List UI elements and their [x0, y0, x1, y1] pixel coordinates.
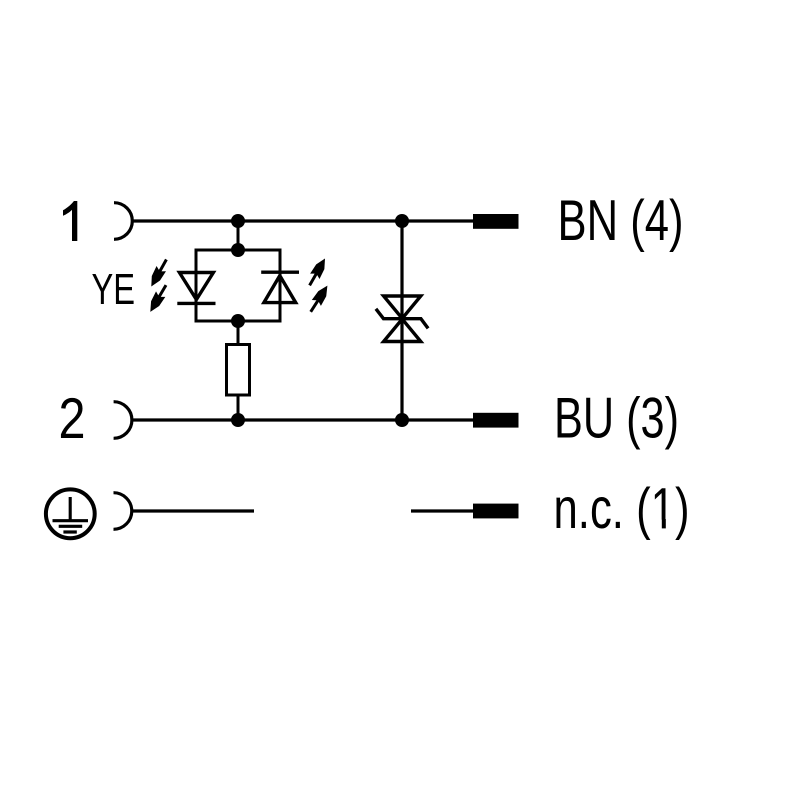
terminal lug n.c. [473, 504, 519, 519]
wire resistor to pin 2 [237, 395, 240, 420]
label n.c. (1) [554, 477, 690, 541]
wire LED bridge bottom to resistor [237, 321, 240, 345]
node junction pin1 / LED branch [231, 214, 245, 228]
svg-text:YE: YE [92, 265, 136, 314]
wire PE stub (unconnected) [132, 509, 254, 512]
wire pin 1 to terminal BN [132, 219, 473, 222]
resistor R1 [227, 345, 250, 396]
PE socket contact [114, 493, 132, 530]
pin label 1 [63, 201, 77, 241]
terminal lug BN [473, 214, 519, 229]
node junction resistor / pin2 [231, 413, 245, 427]
LED D2 light emission arrows (up-right) [305, 256, 332, 315]
node LED bridge top [231, 243, 245, 257]
node LED bridge bottom [231, 314, 245, 328]
node junction suppressor / pin2 [395, 413, 409, 427]
LED D1 light emission arrows (down-left) [146, 257, 171, 315]
wire pin 2 to terminal BU [132, 418, 473, 421]
suppressor diode Z1 (bidirectional TVS) [376, 296, 428, 342]
svg-text:BU (3): BU (3) [554, 387, 679, 451]
svg-text:n.c. (1): n.c. (1) [554, 477, 690, 541]
wire junction to LED bridge top [237, 221, 240, 250]
LED D2 right (cathode up) [261, 272, 299, 302]
svg-text:2: 2 [59, 387, 86, 451]
wire suppressor branch vertical [400, 221, 403, 420]
wire n.c. stub [411, 509, 473, 512]
terminal lug BU [473, 413, 519, 428]
LED D1 left (cathode down) [177, 273, 215, 304]
pin 1 socket contact [114, 203, 132, 240]
LED bridge frame [196, 250, 280, 321]
node junction pin1 / suppressor branch [395, 214, 409, 228]
pin 2 socket contact [114, 402, 132, 439]
protective earth symbol [46, 489, 95, 538]
svg-text:BN (4): BN (4) [558, 189, 684, 253]
